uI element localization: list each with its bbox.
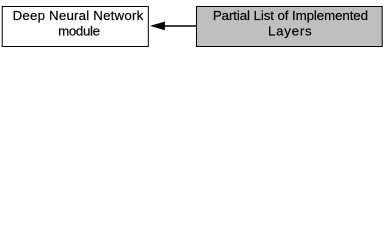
svg-text:Deep Neural Network: Deep Neural Network xyxy=(13,8,144,23)
svg-text:module: module xyxy=(58,23,99,38)
svg-text:Layers: Layers xyxy=(268,23,312,38)
svg-text:Partial List of Implemented: Partial List of Implemented xyxy=(213,8,368,23)
